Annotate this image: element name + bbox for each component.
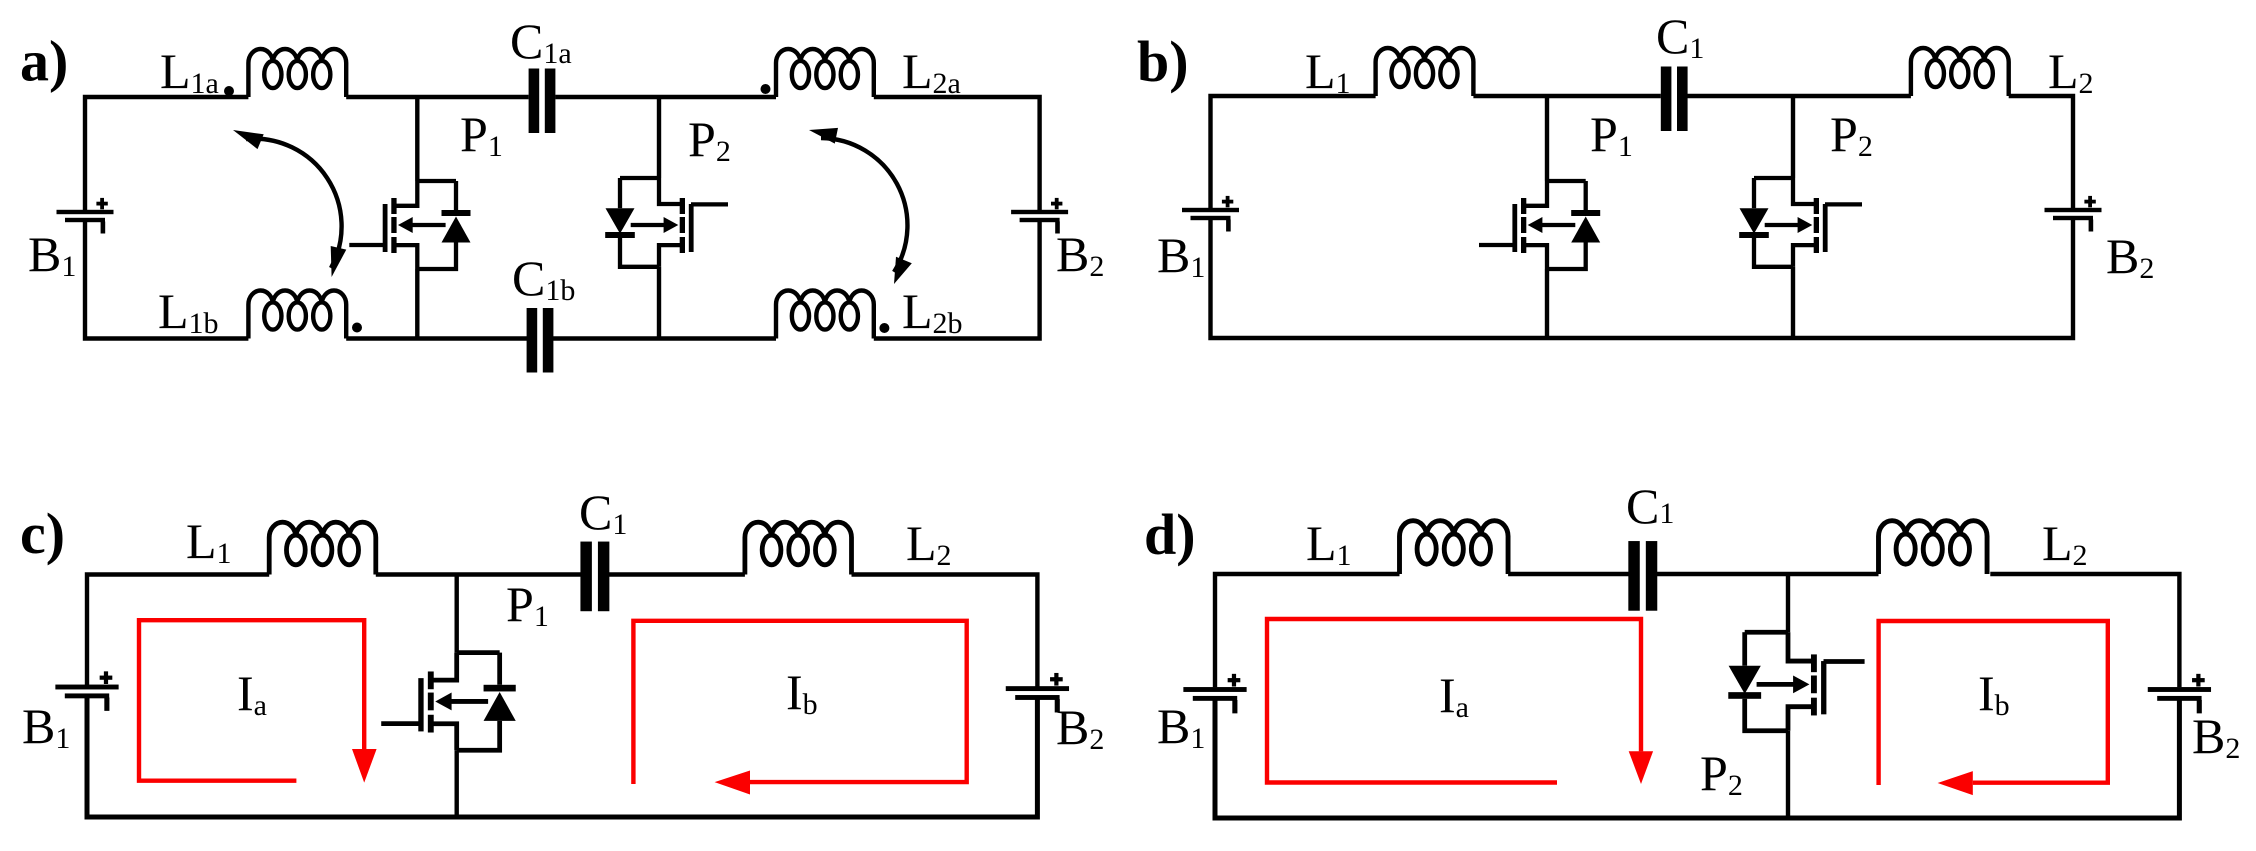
svg-text:B1: B1 — [1157, 698, 1205, 755]
inductor L1 — [1376, 48, 1474, 96]
svg-text:P1: P1 — [506, 576, 549, 633]
capacitor C1 — [1628, 541, 1657, 611]
inductor L2 — [1879, 521, 1988, 574]
svg-text:c): c) — [20, 501, 65, 566]
wire L1 to C1 (node P1 drain) — [1473, 94, 1660, 98]
transistor P2 (with body diode) — [1728, 574, 1864, 818]
wire C1b to L1b (node P1 source) — [346, 336, 527, 340]
capacitor C1 — [1661, 67, 1688, 132]
transistor P2 (with body diode) — [605, 97, 728, 339]
svg-text:L1b: L1b — [158, 283, 219, 340]
bottom wire B2- to B1- — [1215, 698, 2179, 818]
transistor P1 (with body diode) — [1479, 96, 1600, 338]
transistor P1 (with body diode) — [381, 575, 516, 818]
battery B2 — [1006, 673, 1069, 713]
transistor P1 (with body diode) — [349, 97, 470, 339]
battery B2 — [1011, 198, 1068, 234]
svg-text:L1: L1 — [1305, 43, 1351, 100]
svg-text:B1: B1 — [28, 226, 76, 283]
svg-text:L2a: L2a — [902, 43, 961, 100]
inductor L2 — [745, 522, 852, 574]
current loop Ib — [633, 621, 966, 795]
svg-text:P2: P2 — [1700, 745, 1743, 802]
svg-text:Ia: Ia — [1439, 667, 1469, 724]
wire B2- down to L2b — [874, 220, 1040, 339]
svg-text:L2: L2 — [2042, 515, 2088, 572]
battery B2 — [2148, 674, 2211, 714]
svg-text:L2b: L2b — [902, 283, 963, 340]
battery B1 — [55, 671, 118, 711]
wire B1+ up to L1a — [85, 97, 248, 212]
svg-text:P2: P2 — [1830, 106, 1873, 163]
wire C1a to L2a (node P2 drain) — [555, 95, 776, 99]
svg-text:L2: L2 — [2048, 43, 2094, 100]
svg-text:B2: B2 — [2106, 228, 2154, 285]
bottom wire B2- to B1- — [1211, 218, 2074, 338]
coupling dot L2b — [879, 323, 889, 333]
inductor L2 — [1911, 48, 2009, 96]
inductor L1a — [248, 49, 346, 97]
svg-text:B2: B2 — [2192, 708, 2240, 765]
svg-text:d): d) — [1144, 502, 1196, 567]
inductor L2b — [776, 290, 874, 338]
wire L2 to B2+ — [852, 575, 1038, 688]
svg-text:L2: L2 — [906, 515, 952, 572]
wire L1 to C1 (node P1 drain) — [376, 572, 582, 576]
svg-text:b): b) — [1137, 29, 1189, 94]
wire B1+ up to L1 — [1215, 574, 1400, 687]
battery B2 — [2045, 196, 2102, 232]
coupling dot L1a — [224, 86, 234, 96]
svg-text:C1b: C1b — [512, 250, 575, 307]
svg-text:Ib: Ib — [786, 664, 818, 721]
capacitor C1a — [529, 69, 556, 134]
wire L2 to B2+ — [2009, 96, 2073, 210]
svg-text:B1: B1 — [22, 698, 70, 755]
battery B1 — [1182, 196, 1239, 232]
wire C1 to L2 (node P2 drain) — [1688, 94, 1911, 98]
svg-text:L1a: L1a — [160, 43, 219, 100]
battery B1 — [57, 198, 114, 234]
svg-text:Ia: Ia — [237, 665, 267, 722]
inductor L1 — [269, 522, 376, 574]
svg-text:C1: C1 — [579, 484, 627, 541]
svg-text:B1: B1 — [1157, 227, 1205, 284]
svg-text:P2: P2 — [688, 111, 731, 168]
wire C1 to L2 (node P2 drain) — [1656, 572, 1879, 576]
current loop Ia — [139, 620, 377, 782]
coupling arrow L2a-L2b — [809, 128, 912, 284]
wire L1b to B1- — [85, 220, 248, 339]
svg-text:Ib: Ib — [1978, 665, 2010, 722]
svg-text:B2: B2 — [1056, 699, 1104, 756]
bottom wire B2- to B1- — [87, 698, 1037, 818]
wire L2b to C1b (node P2 source) — [553, 336, 776, 340]
capacitor C1 — [580, 542, 609, 612]
svg-text:C1: C1 — [1656, 8, 1704, 65]
inductor L1 — [1400, 521, 1509, 574]
capacitor C1b — [527, 308, 554, 373]
svg-text:C1a: C1a — [510, 13, 572, 70]
current loop Ib — [1879, 621, 2108, 795]
svg-text:a): a) — [20, 29, 68, 94]
wire L2a to B2+ — [874, 97, 1040, 212]
svg-text:B2: B2 — [1056, 226, 1104, 283]
inductor L2a — [776, 49, 874, 97]
svg-text:L1: L1 — [186, 513, 232, 570]
coupling arrow L1a-L1b — [233, 130, 346, 277]
svg-text:P1: P1 — [1590, 106, 1633, 163]
current loop Ia — [1267, 619, 1653, 784]
coupling dot L1b — [352, 323, 362, 333]
wire C1 to L2 (node Ib loop) — [608, 572, 745, 576]
battery B1 — [1183, 674, 1246, 714]
wire L2 to B2+ — [1990, 574, 2179, 687]
svg-text:C1: C1 — [1626, 478, 1674, 534]
transistor P2 (with body diode) — [1739, 96, 1862, 338]
wire L1 to C1 — [1508, 572, 1630, 576]
svg-text:L1: L1 — [1306, 515, 1352, 572]
coupling dot L2a — [761, 84, 771, 94]
svg-text:P1: P1 — [460, 106, 503, 163]
wire L1a to C1a (node P1 drain) — [346, 95, 528, 99]
wire B1+ up to L1 — [1211, 96, 1376, 210]
wire B1+ up to L1 — [87, 575, 269, 688]
inductor L1b — [248, 290, 346, 338]
